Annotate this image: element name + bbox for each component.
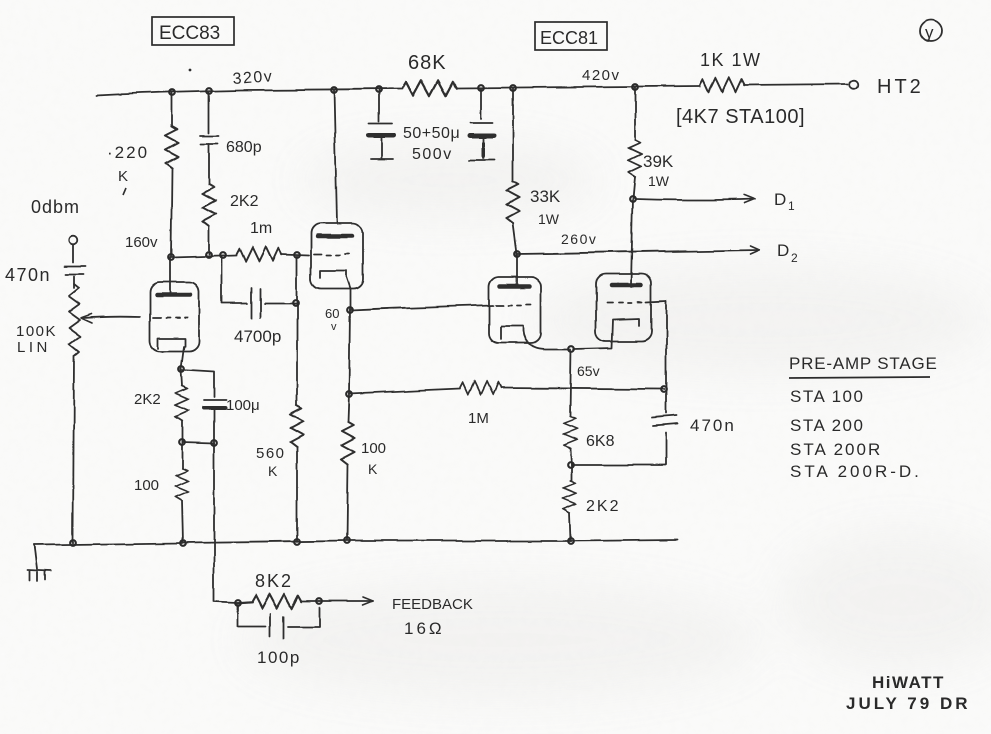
- svg-text:65v: 65v: [577, 363, 600, 379]
- svg-text:1W: 1W: [648, 173, 670, 189]
- svg-text:LIN: LIN: [17, 339, 51, 356]
- svg-text:50+50μ: 50+50μ: [403, 125, 460, 142]
- svg-text:HiWATT: HiWATT: [872, 673, 945, 692]
- svg-text:4700p: 4700p: [234, 327, 281, 346]
- svg-text:K: K: [268, 463, 278, 479]
- svg-text:γ: γ: [925, 23, 934, 42]
- svg-text:D: D: [777, 241, 789, 260]
- svg-text:8K2: 8K2: [255, 571, 293, 591]
- svg-text:1K 1W: 1K 1W: [700, 50, 762, 70]
- svg-text:1m: 1m: [250, 220, 272, 237]
- svg-text:0dbm: 0dbm: [31, 197, 80, 217]
- svg-text:100: 100: [134, 477, 159, 494]
- svg-text:420v: 420v: [582, 67, 621, 84]
- svg-text:STA 200R-D.: STA 200R-D.: [790, 462, 922, 481]
- svg-text:1W: 1W: [538, 211, 560, 227]
- svg-text:1: 1: [788, 199, 795, 213]
- svg-text:160v: 160v: [125, 234, 158, 251]
- svg-text:470n: 470n: [5, 265, 51, 285]
- svg-text:·220: ·220: [107, 143, 149, 162]
- svg-text:260v: 260v: [561, 231, 597, 247]
- svg-text:100: 100: [361, 440, 386, 457]
- svg-text:STA 200: STA 200: [790, 416, 864, 435]
- svg-text:FEEDBACK: FEEDBACK: [392, 596, 473, 613]
- svg-text:PRE-AMP STAGE: PRE-AMP STAGE: [789, 354, 938, 373]
- svg-text:2K2: 2K2: [586, 498, 620, 515]
- svg-text:2: 2: [791, 251, 798, 265]
- svg-text:ECC83: ECC83: [159, 23, 220, 44]
- svg-text:500v: 500v: [412, 146, 453, 163]
- svg-text:16Ω: 16Ω: [404, 619, 445, 638]
- svg-text:470n: 470n: [690, 416, 736, 435]
- svg-text:JULY 79 DR: JULY 79 DR: [846, 694, 971, 713]
- svg-text:STA 100: STA 100: [790, 387, 864, 406]
- svg-text:2K2: 2K2: [134, 391, 161, 408]
- svg-text:[4K7 STA100]: [4K7 STA100]: [676, 106, 805, 128]
- svg-text:680p: 680p: [226, 139, 262, 156]
- svg-text:K: K: [118, 168, 128, 185]
- svg-text:2K2: 2K2: [230, 193, 259, 210]
- svg-text:6K8: 6K8: [586, 433, 615, 450]
- svg-text:STA 200R: STA 200R: [790, 440, 882, 459]
- svg-text:100μ: 100μ: [226, 397, 260, 414]
- svg-text:HT2: HT2: [877, 76, 924, 98]
- svg-text:33K: 33K: [530, 187, 561, 206]
- svg-text:ECC81: ECC81: [540, 28, 598, 48]
- svg-text:68K: 68K: [408, 52, 447, 74]
- svg-text:K: K: [368, 461, 378, 477]
- svg-text:320v: 320v: [232, 68, 274, 88]
- svg-text:100p: 100p: [257, 648, 301, 667]
- svg-text:D: D: [774, 190, 786, 209]
- svg-text:v: v: [331, 321, 337, 333]
- svg-text:560: 560: [256, 445, 286, 462]
- svg-text:60: 60: [325, 306, 339, 321]
- svg-text:100K: 100K: [16, 323, 57, 340]
- svg-text:39K: 39K: [643, 152, 674, 171]
- svg-text:1M: 1M: [468, 410, 489, 427]
